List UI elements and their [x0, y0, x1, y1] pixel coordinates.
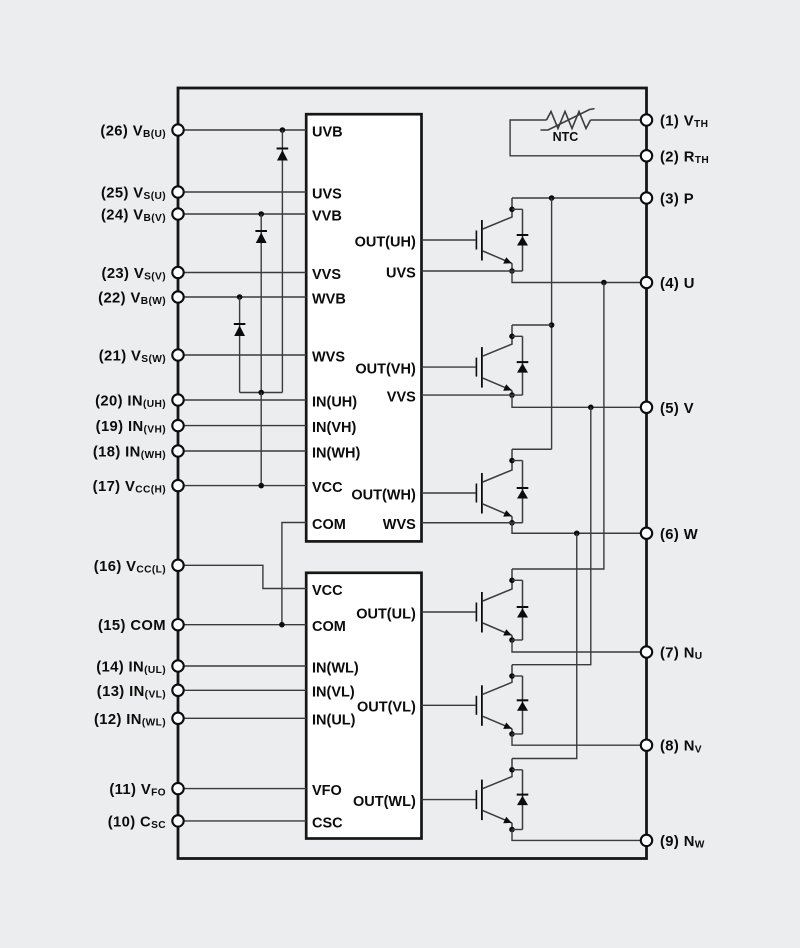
transistor Q3 (high-side W) emitter arrow — [503, 510, 512, 516]
svg-text:COM: COM — [312, 517, 346, 533]
pin 10 terminal — [172, 815, 183, 826]
svg-text:CSC: CSC — [312, 815, 343, 831]
freewheel diode D9 — [517, 770, 529, 830]
wire gate Q4 (low-side U) — [422, 611, 476, 613]
wire Q4 (low-side U) emitter to pin — [512, 640, 647, 652]
svg-text:IN(VL): IN(VL) — [312, 685, 355, 701]
transistor Q1 (high-side U) collector — [483, 198, 512, 229]
transistor Q6 (low-side W) emitter arrow — [503, 817, 512, 823]
wire V bus — [512, 407, 591, 664]
svg-text:COM: COM — [312, 619, 346, 635]
svg-text:OUT(UH): OUT(UH) — [355, 234, 416, 250]
wire W bus — [512, 533, 577, 758]
node junction Q5 (low-side V) emitter — [509, 731, 515, 737]
module outline — [178, 88, 647, 859]
node junction VB(W) tap — [237, 294, 243, 300]
freewheel diode D8 — [517, 676, 529, 734]
pin 1 terminal — [641, 114, 652, 125]
transistor Q6 (low-side W) emitter — [483, 811, 512, 830]
wire pin 24 to block — [178, 213, 306, 215]
pin 3 terminal — [641, 192, 652, 203]
node junction Q6 (low-side W) collector — [509, 767, 515, 773]
wire bootstrap bus to VCC(H) — [260, 393, 262, 486]
pin 19 terminal — [172, 420, 183, 431]
node junction Q1 (high-side U) emitter — [509, 268, 515, 274]
svg-text:UVS: UVS — [386, 265, 416, 281]
wire pin 13 to block — [178, 689, 306, 691]
wire VCC(L) jog — [178, 565, 306, 588]
wire pin 19 to block — [178, 425, 306, 427]
pin 7 terminal — [641, 646, 652, 657]
transistor Q2 (high-side V) emitter arrow — [503, 384, 512, 390]
wire WVS feedback — [422, 522, 523, 524]
svg-text:IN(VH): IN(VH) — [312, 420, 356, 436]
node junction Q2 (high-side V) emitter — [509, 392, 515, 398]
wire pin 22 to block — [178, 296, 306, 298]
node junction P rail — [549, 195, 555, 201]
svg-text:IN(UL): IN(UL) — [312, 713, 356, 729]
wire Q2 collector feed — [512, 324, 552, 326]
pin 26 terminal — [172, 124, 183, 135]
wire Q1 (high-side U) emitter to pin — [512, 271, 647, 283]
wire diode top D8 — [512, 675, 523, 677]
transistor Q5 (low-side V) emitter — [483, 716, 512, 734]
pin 5 terminal — [641, 402, 652, 413]
transistor Q4 (low-side U) emitter arrow — [503, 629, 512, 635]
wire Q5 (low-side V) emitter to pin — [512, 734, 647, 745]
wire gate Q6 (low-side W) — [422, 799, 476, 801]
wire pin 17 to block — [178, 485, 306, 487]
wire Q6 (low-side W) emitter to pin — [512, 830, 647, 841]
wire U1 COM link — [282, 523, 306, 625]
pin 6 terminal — [641, 528, 652, 539]
wire Q1 collector to pin 3 (P rail) — [512, 197, 647, 199]
wire NTC loop — [510, 120, 646, 156]
wire bootstrap bus — [240, 392, 283, 394]
transistor Q3 (high-side W) emitter — [483, 504, 512, 523]
svg-text:(4) U: (4) U — [660, 276, 695, 292]
wire gate Q5 (low-side V) — [422, 704, 476, 706]
pin 4 terminal — [641, 277, 652, 288]
node junction COM — [279, 622, 285, 628]
transistor Q1 (high-side U) emitter arrow — [503, 257, 512, 263]
wire diode bottom D9 — [512, 829, 523, 831]
wire pin 11 to block — [178, 788, 306, 790]
svg-text:NTC: NTC — [553, 130, 579, 144]
node junction bootstrap bus — [258, 390, 264, 396]
transistor Q5 (low-side V) gate bar — [475, 696, 477, 715]
pin 20 terminal — [172, 394, 183, 405]
node junction Q1 (high-side U) collector — [509, 207, 515, 213]
pin 12 terminal — [172, 713, 183, 724]
node junction VB(U) tap — [280, 127, 286, 133]
driver block U2 (LVIC) — [306, 573, 421, 839]
thermistor RT1 (NTC) zigzag — [547, 112, 591, 129]
wire pin 14 to block — [178, 665, 306, 667]
transistor Q1 (high-side U) gate bar — [475, 231, 477, 250]
pin 21 terminal — [172, 349, 183, 360]
wire bootstrap branch U — [281, 130, 283, 393]
bootstrap diode D1 — [277, 149, 289, 161]
node junction Q2 (high-side V) collector — [509, 334, 515, 340]
transistor Q6 (low-side W) collector — [483, 759, 512, 789]
transistor Q5 (low-side V) emitter arrow — [503, 723, 512, 729]
transistor Q1 (high-side U) emitter — [483, 251, 512, 271]
node junction Q4 (low-side U) collector — [509, 578, 515, 584]
wire diode top D4 — [512, 208, 523, 210]
transistor Q4 (low-side U) gate bar — [475, 603, 477, 622]
pin 11 terminal — [172, 783, 183, 794]
wire NTC top right — [591, 119, 647, 121]
bootstrap diode D2 — [255, 231, 267, 243]
wire U bus — [512, 283, 604, 570]
transistor Q2 (high-side V) emitter — [483, 378, 512, 395]
pin 25 terminal — [172, 186, 183, 197]
wire gate Q2 (high-side V) — [422, 366, 476, 368]
pin 23 terminal — [172, 267, 183, 278]
svg-text:IN(UH): IN(UH) — [312, 394, 357, 410]
pin 18 terminal — [172, 445, 183, 456]
wire VVS feedback — [422, 394, 523, 396]
transistor Q2 (high-side V) collector — [483, 325, 512, 356]
transistor Q3 (high-side W) gate bar — [475, 484, 477, 503]
pin 17 terminal — [172, 480, 183, 491]
svg-text:WVS: WVS — [383, 517, 416, 533]
wire diode bottom D8 — [512, 733, 523, 735]
wire diode top D6 — [512, 460, 523, 462]
wire diode top D9 — [512, 769, 523, 771]
svg-text:IN(WL): IN(WL) — [312, 660, 359, 676]
svg-text:OUT(UL): OUT(UL) — [356, 606, 416, 622]
svg-text:OUT(VL): OUT(VL) — [357, 700, 416, 716]
wire pin 12 to block — [178, 717, 306, 719]
wire P bus — [551, 198, 553, 449]
wire pin 26 to block — [178, 129, 306, 131]
node junction Q3 (high-side W) emitter — [509, 520, 515, 526]
pin 9 terminal — [641, 835, 652, 846]
svg-text:VCC: VCC — [312, 583, 343, 599]
svg-text:OUT(WH): OUT(WH) — [351, 487, 416, 503]
wire Q3 collector feed — [512, 448, 552, 450]
svg-text:VVB: VVB — [312, 208, 342, 224]
wire pin 15 to block — [178, 624, 306, 626]
svg-text:(15) COM: (15) COM — [98, 618, 166, 634]
pin 24 terminal — [172, 208, 183, 219]
node junction VCC(H) — [258, 483, 264, 489]
node junction Q5 (low-side V) collector — [509, 673, 515, 679]
wire pin 21 to block — [178, 354, 306, 356]
svg-text:(6) W: (6) W — [660, 527, 698, 543]
svg-text:WVS: WVS — [312, 349, 345, 365]
wire bootstrap branch V — [260, 214, 262, 393]
wire Q2 (high-side V) emitter to pin — [512, 395, 647, 407]
transistor Q3 (high-side W) collector — [483, 449, 512, 482]
svg-text:OUT(VH): OUT(VH) — [355, 362, 416, 378]
svg-text:VVS: VVS — [312, 267, 341, 283]
pin 22 terminal — [172, 291, 183, 302]
node junction VB(V) tap — [258, 211, 264, 217]
wire pin 20 to block — [178, 399, 306, 401]
pin 16 terminal — [172, 560, 183, 571]
node junction U phase — [601, 280, 607, 286]
transistor Q6 (low-side W) body bar — [481, 780, 483, 821]
wire pin 18 to block — [178, 450, 306, 452]
svg-text:VCC: VCC — [312, 480, 343, 496]
svg-text:UVS: UVS — [312, 186, 342, 202]
wire diode top D7 — [512, 579, 523, 581]
node junction V phase — [588, 405, 594, 411]
transistor Q6 (low-side W) gate bar — [475, 790, 477, 809]
wire Q3 (high-side W) emitter to pin — [512, 523, 647, 534]
freewheel diode D6 — [517, 461, 529, 523]
wire diode top D5 — [512, 335, 523, 337]
transistor Q5 (low-side V) collector — [483, 665, 512, 695]
wire gate Q1 (high-side U) — [422, 239, 476, 241]
svg-text:IN(WH): IN(WH) — [312, 445, 360, 461]
transistor Q1 (high-side U) body bar — [481, 220, 483, 261]
pin 8 terminal — [641, 740, 652, 751]
wire gate Q3 (high-side W) — [422, 492, 476, 494]
driver block U1 (HVIC) — [306, 114, 421, 541]
svg-text:UVB: UVB — [312, 124, 343, 140]
svg-text:OUT(WL): OUT(WL) — [353, 794, 416, 810]
transistor Q4 (low-side U) emitter — [483, 623, 512, 640]
pin 2 terminal — [641, 150, 652, 161]
thermistor RT1 strike line — [541, 109, 595, 130]
wire pin 25 to block — [178, 191, 306, 193]
wire pin 10 to block — [178, 820, 306, 822]
transistor Q2 (high-side V) gate bar — [475, 358, 477, 377]
pin 13 terminal — [172, 685, 183, 696]
node junction Q4 (low-side U) emitter — [509, 637, 515, 643]
transistor Q5 (low-side V) body bar — [481, 685, 483, 726]
svg-text:(3) P: (3) P — [660, 192, 694, 208]
wire diode bottom D7 — [512, 639, 523, 641]
transistor Q3 (high-side W) body bar — [481, 473, 483, 514]
freewheel diode D5 — [517, 336, 529, 395]
pin 15 terminal — [172, 619, 183, 630]
svg-text:VVS: VVS — [387, 390, 416, 406]
pin 14 terminal — [172, 660, 183, 671]
wire bootstrap branch W — [239, 297, 241, 393]
node junction W phase — [574, 530, 580, 536]
node junction Q3 (high-side W) collector — [509, 458, 515, 464]
bootstrap diode D3 — [234, 324, 246, 336]
node junction P bus V tap — [549, 322, 555, 328]
svg-text:VFO: VFO — [312, 783, 342, 799]
transistor Q4 (low-side U) body bar — [481, 592, 483, 633]
wire pin 23 to block — [178, 272, 306, 274]
svg-text:WVB: WVB — [312, 291, 346, 307]
svg-text:(5) V: (5) V — [660, 401, 694, 417]
freewheel diode D4 — [517, 209, 529, 271]
freewheel diode D7 — [517, 580, 529, 640]
transistor Q2 (high-side V) body bar — [481, 347, 483, 388]
wire UVS feedback — [422, 270, 523, 272]
transistor Q4 (low-side U) collector — [483, 569, 512, 601]
node junction Q6 (low-side W) emitter — [509, 827, 515, 833]
